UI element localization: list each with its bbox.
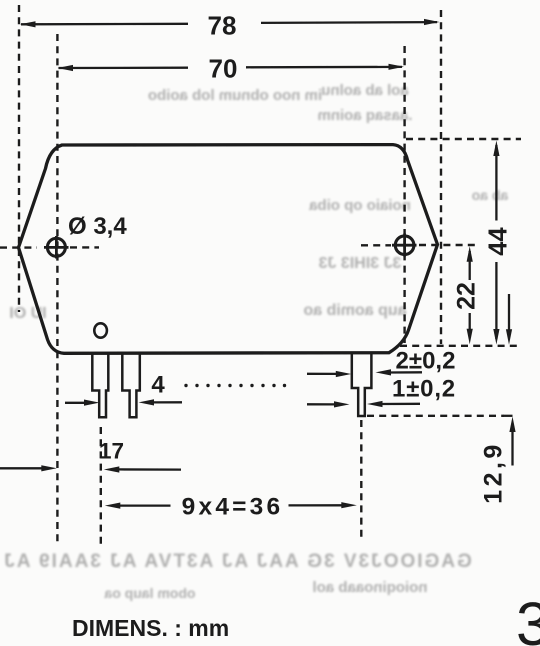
dim 1±0,2 arrows — [307, 403, 336, 405]
svg-text:DIMENS. : mm: DIMENS. : mm — [72, 615, 229, 641]
pin 10 — [352, 353, 372, 416]
dashed centerline H2 right — [361, 244, 391, 246]
dashed centerline H2 left (through hole level) — [0, 246, 37, 248]
pin 1 indicator O — [94, 323, 107, 337]
dim 2±0,2 arrows — [307, 373, 338, 375]
dashed extension line V5 (pin 1 centerline) — [100, 427, 102, 547]
dim 70 line — [59, 67, 403, 68]
dashed extension line V2 (left hole centerline, long) — [56, 34, 58, 546]
dashed reference line H3 (package bottom level, right) — [400, 345, 521, 347]
dashed reference line H1 (package top level, right) — [406, 138, 521, 140]
dashed reference line H4 (pin tip level, right) — [367, 415, 504, 417]
dim 4 arrows — [65, 402, 86, 404]
dim 9x4=36 arrows — [105, 503, 121, 509]
svg-text:12,9: 12,9 — [480, 441, 508, 504]
pin 2 — [122, 353, 140, 418]
dim 78 line — [21, 22, 437, 24]
dashed extension line V4 (right outer, through right vertex) — [440, 10, 442, 344]
dashed extension line V6 (pin 10 centerline) — [360, 420, 362, 537]
svg-text:1±0,2: 1±0,2 — [392, 376, 456, 403]
mounting hole left (Ø3,4) — [44, 236, 69, 259]
svg-text:44: 44 — [485, 227, 513, 256]
svg-text:im noo obnum lob aoibo: im noo obnum lob aoibo — [148, 87, 322, 104]
pin 1 — [92, 353, 108, 418]
svg-text:obom laup oa: obom laup oa — [104, 585, 195, 601]
svg-text:2±0,2: 2±0,2 — [396, 348, 456, 375]
svg-text:noiaio op oiba: noiaio op oiba — [309, 197, 411, 214]
dotted row: omitted pins 3..9 — [184, 384, 286, 387]
dim 17 arrows — [0, 467, 44, 469]
dashed extension line V3 (right hole centerline) — [403, 46, 405, 343]
bleed-through text layer (mirrored faint print from reverse page) — [2, 82, 508, 601]
svg-text:aup aomib ao: aup aomib ao — [303, 302, 406, 319]
svg-text:.aasaq aoinm: .aasaq aoinm — [317, 107, 412, 124]
dim 44 line — [495, 145, 497, 339]
dim 22 line — [469, 251, 471, 338]
svg-text:78: 78 — [208, 11, 237, 41]
svg-text:22: 22 — [453, 282, 481, 310]
dim 12,9 lower arrow and tail — [504, 415, 513, 417]
dim 12,9 upper arrow — [508, 294, 510, 331]
svg-text:aol ab aolnu: aol ab aolnu — [321, 82, 409, 99]
svg-text:ab ao: ab ao — [472, 187, 509, 203]
svg-text:9x4=36: 9x4=36 — [182, 494, 284, 521]
svg-text:70: 70 — [209, 54, 238, 84]
svg-text:noioqinoaab aol: noioqinoaab aol — [313, 579, 428, 596]
dashed extension line V1 (left outer, through left vertex) — [18, 5, 20, 312]
svg-text:Ø 3,4: Ø 3,4 — [68, 213, 127, 240]
svg-text:3: 3 — [516, 590, 540, 646]
svg-text:4: 4 — [151, 372, 165, 399]
package outline — [19, 145, 438, 354]
svg-text:GAGIOOJ3V 3G AAJ AJ A3TVA AJ 3: GAGIOOJ3V 3G AAJ AJ A3TVA AJ 3AAI9 AJ — [2, 551, 472, 572]
mounting hole right — [392, 234, 417, 257]
svg-text:17: 17 — [99, 439, 124, 464]
svg-text:3J 3IHI3 J3: 3J 3IHI3 J3 — [319, 255, 402, 272]
